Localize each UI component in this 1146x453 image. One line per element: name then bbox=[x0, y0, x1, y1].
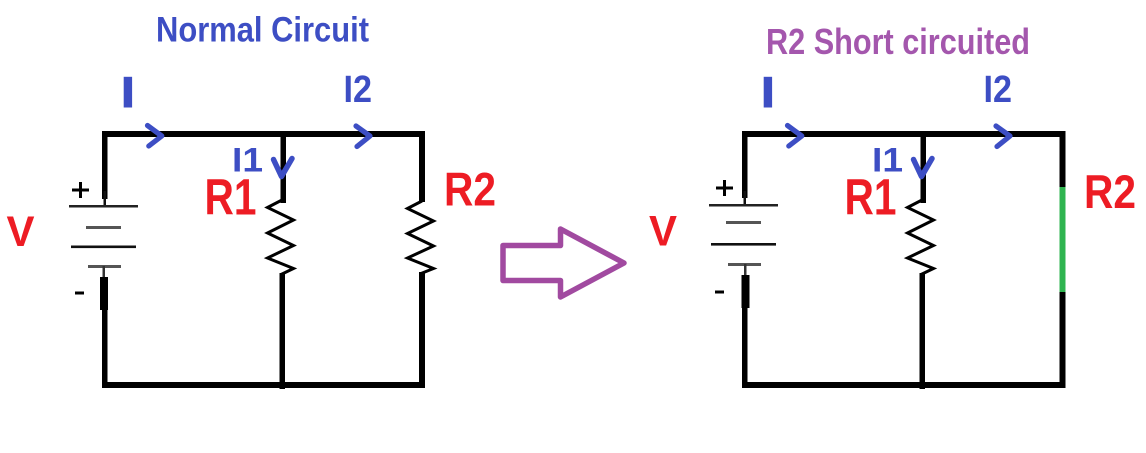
svg-text:V: V bbox=[7, 208, 35, 256]
battery V plate 1 long bbox=[69, 205, 138, 208]
battery V plate 3 long (right) bbox=[711, 243, 776, 246]
resistor R2 (left circuit) bbox=[408, 201, 434, 274]
wire left upper (left circuit) bbox=[102, 131, 108, 199]
wire bottom (right circuit) bbox=[742, 382, 1065, 388]
wire left upper (right circuit) bbox=[742, 131, 748, 198]
svg-text:R2: R2 bbox=[1084, 165, 1136, 218]
label I (right circuit) bbox=[764, 77, 772, 108]
arrow I2 right chevron (left circuit) bbox=[356, 126, 370, 147]
short circuit green segment R2 (right circuit) bbox=[1060, 187, 1066, 292]
wire R2 branch upper black (right circuit) bbox=[1060, 131, 1066, 187]
arrow I right chevron (right circuit) bbox=[788, 126, 802, 147]
svg-text:I2: I2 bbox=[344, 69, 373, 111]
arrow I2 right chevron (right circuit) bbox=[996, 126, 1010, 147]
battery plus sign bbox=[72, 182, 89, 198]
svg-text:R1: R1 bbox=[845, 169, 897, 226]
battery V plate 1 long (right) bbox=[709, 204, 778, 207]
resistor R1 (right circuit) bbox=[908, 200, 934, 275]
wire R2 branch lower black (right circuit) bbox=[1060, 292, 1066, 388]
svg-text:I2: I2 bbox=[984, 69, 1013, 111]
wire R1 branch lower (right circuit) bbox=[920, 273, 926, 389]
svg-text:Normal Circuit: Normal Circuit bbox=[156, 11, 369, 50]
wire top (left circuit) bbox=[102, 131, 425, 137]
wire battery bottom lead bbox=[103, 266, 106, 278]
svg-text:V: V bbox=[649, 208, 677, 256]
wire R2 branch upper (left circuit) bbox=[419, 131, 425, 202]
wire left lower (right circuit) bbox=[742, 308, 748, 387]
wire battery bottom terminal (right) bbox=[742, 275, 750, 308]
wire battery top lead bbox=[104, 191, 107, 205]
svg-text:R2: R2 bbox=[444, 163, 496, 216]
wire R1 branch lower (left circuit) bbox=[280, 273, 286, 389]
wire battery bottom lead (right) bbox=[744, 264, 747, 276]
battery V plate 4 short bbox=[88, 265, 121, 268]
wire bottom (left circuit) bbox=[102, 382, 425, 388]
battery V plate 4 short (right) bbox=[728, 263, 761, 266]
battery V plate 2 short bbox=[86, 226, 121, 229]
arrow I1 down chevron (left circuit) bbox=[274, 159, 293, 177]
wire battery top lead (right) bbox=[744, 191, 747, 205]
arrow between circuits bbox=[503, 229, 624, 297]
wire R1 branch upper (right circuit) bbox=[921, 137, 927, 203]
resistor R1 (left circuit) bbox=[268, 200, 294, 275]
battery minus sign bbox=[75, 292, 84, 295]
wire left lower (left circuit) bbox=[102, 310, 108, 387]
wire R1 branch upper (left circuit) bbox=[281, 137, 287, 203]
label I (left circuit) bbox=[124, 77, 132, 108]
wire R2 branch lower (left circuit) bbox=[419, 272, 425, 387]
battery V plate 2 short (right) bbox=[726, 221, 761, 224]
arrow I1 down chevron (right circuit) bbox=[914, 159, 933, 177]
wire battery bottom terminal bbox=[100, 277, 108, 310]
arrow I right chevron (left circuit) bbox=[148, 126, 162, 147]
wire top (right circuit) bbox=[742, 131, 1065, 137]
battery minus sign (right) bbox=[715, 291, 724, 294]
battery V plate 3 long bbox=[71, 246, 136, 249]
svg-text:R1: R1 bbox=[205, 169, 257, 226]
svg-text:R2 Short circuited: R2 Short circuited bbox=[766, 21, 1030, 62]
battery plus sign (right) bbox=[716, 180, 733, 196]
